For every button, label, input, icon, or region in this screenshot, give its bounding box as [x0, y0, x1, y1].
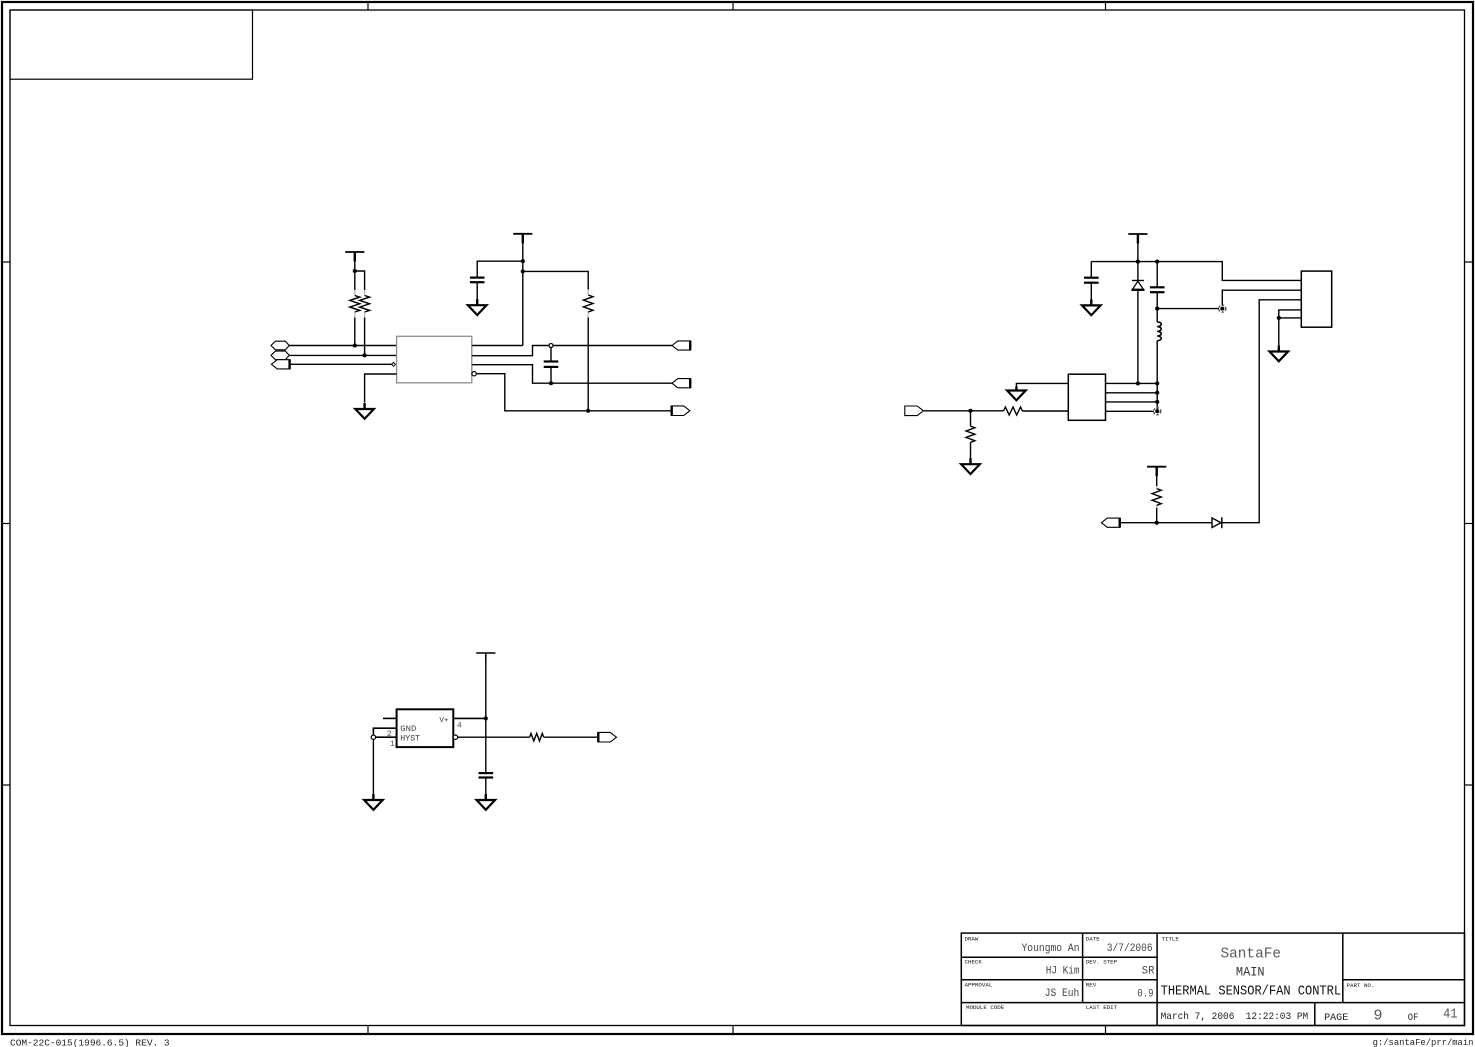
wire VCC to R-PU: [1156, 476, 1158, 486]
ground symbol (C3): [1090, 299, 1092, 305]
wire junction down to pull-down resistor: [970, 411, 972, 426]
svg-text:0.9: 0.9: [1137, 988, 1153, 1000]
U2 output bubble: [453, 735, 457, 739]
power symbol V+ (U2): [476, 652, 495, 654]
junction on bus line 1: [353, 343, 357, 347]
wire from VCC down to node: [354, 261, 356, 271]
wire C1 to ground: [476, 282, 478, 305]
CN1 pin C wire (sense line down): [1222, 300, 1302, 523]
junction rail/cap C4: [1155, 260, 1159, 264]
wire to R-C top: [523, 271, 588, 289]
node junction (top of parallel resistors): [353, 269, 357, 273]
wire node to connector feed marker: [1157, 308, 1219, 310]
wire CN1 pin B down to marker: [1222, 290, 1301, 305]
CN1 pin D wire: [1279, 310, 1302, 318]
port P8 (pentagon, sense out): [1102, 518, 1121, 527]
ground symbol (C5): [485, 794, 487, 800]
U1 open-drain output bubble: [472, 372, 476, 376]
title block outline: [961, 933, 1464, 1025]
capacitor C3 (rail bypass): [1084, 277, 1099, 279]
svg-text:SantaFe: SantaFe: [1221, 946, 1282, 963]
svg-text:HJ Kim: HJ Kim: [1046, 965, 1080, 977]
svg-text:JS Euh: JS Euh: [1045, 988, 1080, 1000]
wire D1 anode down to motor node: [1137, 290, 1139, 384]
svg-text:41: 41: [1443, 1007, 1457, 1023]
port P4 (pentagon, net 1 out): [672, 341, 691, 350]
svg-text:DRAW: DRAW: [965, 935, 979, 942]
wire C4 top: [1156, 262, 1158, 288]
junction gate net / pull-down: [968, 409, 972, 413]
junction rail/diode: [1136, 260, 1140, 264]
resistor R-O (output series): [529, 736, 531, 738]
svg-text:APPROVAL: APPROVAL: [965, 981, 993, 988]
svg-text:March 7, 2006 12:22:03 PM: March 7, 2006 12:22:03 PM: [1161, 1011, 1309, 1023]
U1 output pin wire to port (net 1): [472, 346, 672, 356]
svg-text:9: 9: [1373, 1008, 1382, 1025]
diode D2 triangle: [1212, 518, 1221, 528]
power symbol VCC (above parallel resistors): [345, 251, 364, 253]
junction D1/Q1 drain wire: [1136, 381, 1140, 385]
port P7 (pentagon right, fan control in): [905, 406, 924, 416]
capacitor C5 (V+ bypass): [479, 772, 494, 774]
power symbol VCC (above U1, right): [513, 233, 532, 235]
wire branch to second resistor: [355, 271, 365, 290]
border zone tick marks right: [1465, 261, 1474, 263]
junction drain bus 2: [1155, 391, 1159, 395]
power symbol VCC (fan circuit): [1128, 233, 1147, 235]
wire tie down to ground: [372, 739, 374, 800]
transistor Q1 body: [1068, 374, 1105, 420]
resistor R-A (pull-up, left of pair): [354, 290, 356, 296]
svg-text:4: 4: [457, 721, 462, 731]
svg-text:TITLE: TITLE: [1162, 935, 1180, 942]
no-connect bubble on cap C2 top: [549, 344, 553, 348]
capacitor C2 (filter): [550, 348, 552, 362]
ground symbol (U1 ground pin): [363, 403, 365, 409]
junction to bypass cap: [521, 259, 525, 263]
junction C4/inductor/feed: [1155, 307, 1159, 311]
connection target marker (motor +): [1219, 305, 1226, 312]
U2 unconnected left pin stub: [383, 717, 397, 719]
ground symbol (CN1): [1278, 346, 1280, 352]
ground symbol (C1): [476, 299, 478, 305]
V+ riser down through pin4 to cap: [485, 662, 487, 773]
power symbol VCC (sense pull-up): [1147, 466, 1166, 468]
port P5 (pentagon, net 2 out): [672, 379, 691, 388]
junction sense net: [1155, 521, 1159, 525]
svg-text:REV: REV: [1086, 981, 1097, 988]
wire bus line 1: [289, 345, 396, 347]
wire L1 bottom to Q1 drain bus: [1156, 341, 1158, 412]
capacitor C1 (bypass): [470, 277, 485, 279]
port P3 (pentagon left, bus line 3): [271, 360, 290, 369]
resistor R-C (output pull-up): [587, 290, 589, 296]
wire C5 to ground: [485, 778, 487, 801]
top-left revision box: [10, 10, 253, 79]
wire bus line 2: [289, 354, 396, 356]
wire to bypass cap C1: [477, 261, 523, 277]
wire R-PU to sense net: [1156, 508, 1158, 523]
svg-text:COM-22C-015(1996.6.5) REV. 3: COM-22C-015(1996.6.5) REV. 3: [10, 1038, 170, 1047]
svg-text:PAGE: PAGE: [1324, 1012, 1348, 1024]
svg-text:OF: OF: [1408, 1013, 1419, 1024]
capacitor C4 (across motor): [1150, 286, 1165, 288]
inductor L1 (motor winding): [1156, 309, 1158, 322]
thermal sensor IC U1 body: [397, 336, 472, 383]
junction V+ / pin4: [484, 716, 488, 720]
input-type diamond marker at U1 pin: [392, 362, 396, 366]
CN1 pin E wire: [1279, 317, 1302, 319]
svg-text:V+: V+: [439, 717, 449, 725]
port P2 (hex, bus line 2): [271, 351, 289, 360]
wire C3 to ground: [1090, 283, 1092, 306]
U2 pin2 wire: [373, 728, 396, 735]
svg-text:MODULE CODE: MODULE CODE: [966, 1004, 1005, 1011]
svg-text:MAIN: MAIN: [1236, 965, 1265, 980]
wire CN1 ground pins to ground: [1278, 318, 1280, 352]
fan connector CN1 body: [1301, 271, 1331, 327]
junction C2 bottom: [549, 381, 553, 385]
border zone tick marks left: [2, 261, 10, 263]
svg-text:Youngmo An: Youngmo An: [1022, 943, 1080, 955]
svg-text:THERMAL SENSOR/FAN CONTRL: THERMAL SENSOR/FAN CONTRL: [1161, 983, 1342, 999]
Q1 drain pin wires to node bus: [1106, 382, 1158, 384]
junction to pull-up resistor R-C: [521, 269, 525, 273]
U2 output wire to series resistor: [458, 736, 530, 738]
port P9 (pentagon right, thermal alert out): [598, 732, 617, 742]
junction drain bus 3: [1155, 400, 1159, 404]
svg-text:CHECK: CHECK: [965, 959, 983, 966]
wire R-C bottom down crossing to output net: [587, 318, 589, 411]
junction on bus line 2: [363, 353, 367, 357]
wire to first resistor: [354, 271, 356, 290]
junction CN1 ground pins: [1277, 316, 1281, 320]
svg-text:PART NO.: PART NO.: [1347, 982, 1375, 989]
border zone tick marks bottom: [367, 1026, 369, 1035]
ground symbol (U2 pins): [372, 794, 374, 800]
resistor R-PD (gate pull-down): [970, 425, 972, 427]
svg-text:HYST: HYST: [400, 733, 420, 743]
Q1 gate pin wire: [1022, 410, 1068, 412]
svg-text:SR: SR: [1142, 965, 1155, 977]
thermostat U2 body: [397, 709, 454, 747]
diode D2 cathode bar: [1221, 517, 1223, 528]
svg-text:1: 1: [390, 739, 395, 749]
svg-text:g:/santaFe/prr/main: g:/santaFe/prr/main: [1373, 1037, 1474, 1047]
diode D1 triangle: [1132, 281, 1144, 290]
junction drain bus 1: [1155, 381, 1159, 385]
svg-text:LAST EDIT: LAST EDIT: [1086, 1004, 1118, 1011]
wire R-A bottom to bus line 1: [354, 318, 356, 346]
wire rail down to D1 cathode: [1137, 262, 1139, 281]
svg-text:3/7/2006: 3/7/2006: [1107, 943, 1153, 955]
port P1 (hex, bus line 1): [271, 341, 289, 350]
resistor R-PU (sense pull-up): [1156, 486, 1158, 489]
svg-text:DATE: DATE: [1086, 935, 1100, 942]
resistor R-B (pull-up, right of pair): [364, 290, 366, 296]
junction R-C on output net: [586, 409, 590, 413]
ground symbol (R-PD): [969, 458, 971, 464]
port P6 (pentagon right, bottom net out): [671, 406, 690, 416]
U1 output wire to bottom net: [476, 374, 671, 411]
pin1/2 tie bubble: [371, 735, 375, 739]
wire bus line 3: [290, 363, 392, 365]
wire port to diode D2: [1120, 522, 1212, 524]
border zone tick marks top: [367, 2, 369, 10]
VCC stub down to rail: [1137, 243, 1139, 262]
wire port to gate resistor: [924, 410, 1004, 412]
diode D1 (flyback) cathode bar: [1132, 280, 1144, 282]
U1 pin wire to port (net 2): [472, 365, 672, 384]
wire C4 bottom to node: [1156, 292, 1158, 308]
wire U1 pin (VCC) to power rail riser: [472, 345, 523, 347]
ground symbol (Q1 source): [1015, 387, 1017, 391]
resistor R-G (gate series): [1003, 410, 1005, 412]
U2 pin4 wire: [453, 717, 486, 719]
Q1 source pin wire to ground: [1016, 383, 1068, 388]
wire resistor to port: [544, 736, 598, 738]
connection target marker (drain bus end): [1154, 408, 1161, 415]
power rail wire: [1091, 262, 1301, 281]
U1 left ground pin wire: [365, 374, 397, 403]
VCC riser wire down to U1 pin: [522, 243, 524, 346]
U2 pin1 wire: [376, 736, 397, 738]
wire R-PD to ground: [970, 442, 972, 464]
svg-text:DEV. STEP: DEV. STEP: [1086, 959, 1118, 966]
wire rail to cap C3: [1090, 262, 1092, 278]
wire R-B bottom to bus line 2: [364, 318, 366, 356]
